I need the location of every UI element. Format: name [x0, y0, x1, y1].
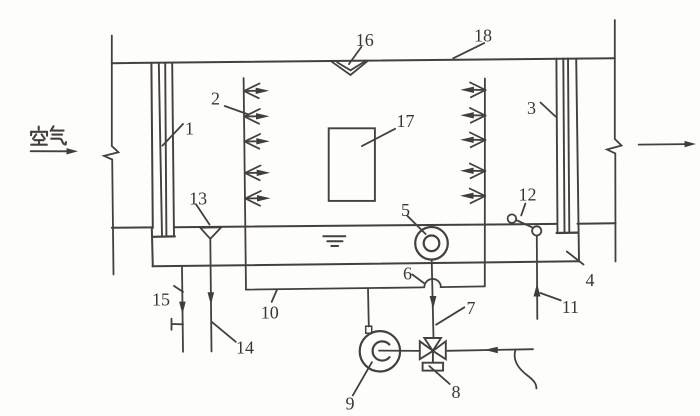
overflow funnel 13	[200, 227, 221, 238]
float valve 12 float ball	[508, 214, 517, 223]
pump 9 body	[360, 331, 400, 371]
arrowhead down on line 7	[430, 296, 437, 309]
air inlet arrow	[31, 150, 68, 152]
svg-text:3: 3	[527, 98, 536, 118]
nozzle L5	[245, 191, 270, 206]
nozzle L3	[245, 134, 270, 149]
tank drain line 15	[182, 266, 183, 352]
duct floor left segment	[112, 226, 152, 228]
leader for 9	[353, 362, 372, 395]
plate line	[563, 59, 564, 233]
svg-text:6: 6	[403, 264, 412, 284]
make-up water line 11	[536, 236, 539, 319]
air inlet label 空	[31, 127, 47, 145]
tank bottom	[153, 261, 580, 266]
make-up supply pipe	[447, 349, 533, 351]
nozzle R4	[460, 164, 485, 179]
arrowhead down on line 14	[208, 292, 215, 305]
air inlet label 气	[51, 126, 66, 144]
leader for 3	[541, 103, 556, 117]
pump 9 impeller C	[373, 341, 390, 360]
eliminator 3 casing right line / tank right wall 4	[576, 58, 579, 261]
float valve lever	[516, 220, 533, 228]
eliminator 1 casing right line	[172, 63, 174, 236]
pump discharge riser	[367, 288, 370, 326]
nozzle L1	[244, 84, 269, 99]
leader for 7	[436, 307, 464, 324]
arrowhead up on line 11	[534, 284, 541, 297]
overflow drain line 14	[210, 239, 211, 352]
drain valve tick bar	[171, 319, 173, 330]
nozzle L4	[245, 166, 270, 181]
leader for 13	[196, 204, 210, 224]
svg-text:2: 2	[211, 89, 220, 109]
svg-text:14: 14	[236, 338, 254, 358]
pump top port	[366, 326, 372, 333]
right duct break line	[607, 20, 622, 262]
nozzle R3	[460, 133, 485, 148]
nozzle R2	[460, 108, 485, 123]
intake chevron 16 inner V	[337, 62, 364, 71]
tank left wall	[152, 228, 153, 267]
water surface line	[175, 224, 557, 227]
leader for 8	[429, 366, 449, 384]
left duct break line	[104, 36, 119, 275]
pipe 10 bridge arc 6	[424, 279, 441, 287]
leader for 14	[212, 322, 236, 342]
svg-text:13: 13	[189, 189, 207, 209]
valve 8 stem	[432, 351, 434, 363]
svg-text:17: 17	[397, 111, 415, 131]
eliminator 1 bottom closure	[153, 235, 175, 238]
svg-text:16: 16	[356, 30, 374, 50]
valve 8 actuator box	[423, 363, 444, 371]
recirculating pipe 10 right segment	[441, 285, 485, 288]
eliminator 3 bottom closure	[557, 232, 579, 235]
plate line	[165, 63, 166, 237]
duct top wall 18	[112, 58, 615, 63]
leader for 2	[225, 106, 249, 115]
leader for 5	[407, 216, 425, 234]
eliminator plates 1 casing left line	[151, 63, 152, 228]
svg-text:4: 4	[586, 270, 595, 290]
leader for 1	[163, 124, 184, 146]
svg-text:9: 9	[346, 394, 355, 414]
plate line	[159, 63, 162, 237]
drain fitting 5 outer circle	[415, 227, 448, 260]
svg-text:15: 15	[152, 290, 170, 310]
nozzle L2	[244, 109, 269, 124]
leader for 17	[362, 129, 395, 146]
valve 8 right triangle	[433, 341, 446, 359]
funnel top edge	[200, 226, 221, 228]
leader for 18	[453, 43, 484, 58]
leader for 6	[412, 275, 424, 284]
leader for 12	[521, 204, 525, 216]
svg-text:11: 11	[562, 297, 579, 317]
leader for 4	[567, 252, 584, 265]
arrowhead left on supply pipe	[485, 347, 498, 354]
leader for 11	[540, 293, 560, 300]
nozzle R5	[460, 189, 485, 204]
leader for 16	[349, 47, 362, 64]
svg-text:12: 12	[519, 185, 537, 205]
drain fitting 5 inner circle	[424, 236, 440, 252]
pump outlet line	[379, 350, 419, 352]
spray header pipe right	[484, 79, 486, 287]
svg-text:18: 18	[474, 26, 492, 46]
svg-text:8: 8	[452, 382, 461, 402]
arrowhead down on line 15	[179, 302, 186, 315]
recirculating pipe 10 left segment	[246, 287, 423, 289]
drain drop line 7	[432, 260, 434, 339]
valve 8 top triangle	[424, 338, 441, 351]
inspection box 17	[329, 128, 375, 201]
leader for 15	[174, 286, 183, 292]
svg-text:5: 5	[401, 200, 410, 220]
eliminator plates 3 casing left line	[556, 59, 557, 233]
intake chevron 16 outer V	[332, 61, 368, 75]
drain valve tick on line 15	[172, 323, 184, 325]
svg-text:1: 1	[185, 119, 194, 139]
water level symbol	[323, 236, 345, 246]
valve 8 left triangle	[420, 341, 433, 359]
supply pipe break squiggle	[515, 350, 537, 388]
air outlet arrow	[639, 143, 686, 146]
nozzle R1	[460, 83, 485, 98]
plate line	[568, 58, 569, 232]
svg-text:10: 10	[261, 303, 279, 323]
svg-text:7: 7	[467, 298, 476, 318]
leader for 10	[272, 290, 277, 302]
spray header pipe left (2)	[244, 78, 246, 290]
float valve body	[532, 226, 541, 235]
duct floor right segment	[578, 222, 616, 224]
